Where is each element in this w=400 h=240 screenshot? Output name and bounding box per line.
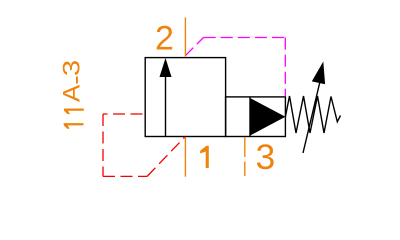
svg-text:3: 3 xyxy=(256,137,276,177)
svg-text:3: 3 xyxy=(58,60,85,76)
svg-text:2: 2 xyxy=(155,20,174,58)
svg-text:A: A xyxy=(58,84,85,102)
